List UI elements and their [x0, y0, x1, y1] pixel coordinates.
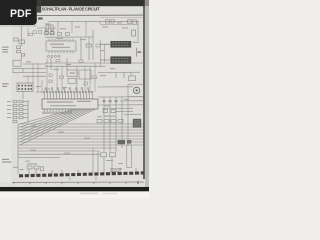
- bus line 8: [18, 144, 144, 146]
- capacitor C103: [45, 32, 49, 35]
- lower right dark chip A: [118, 140, 125, 144]
- module label: [70, 72, 76, 73]
- wire v x67: [66, 58, 68, 70]
- wire fan diagonal 7: [20, 109, 92, 142]
- IC102 label row2: [50, 105, 76, 106]
- resistor R106: [86, 44, 91, 47]
- wire v x47: [46, 58, 48, 92]
- node tick T2: [71, 22, 73, 25]
- mains label 3: [2, 51, 8, 52]
- bottom ruler line: [12, 181, 144, 183]
- wire right drop: [137, 21, 139, 41]
- ruler tick 4b: [93, 182, 95, 184]
- bottom footer smudge 2: [103, 193, 117, 194]
- capacitor C104: [51, 32, 55, 35]
- value label 9: [100, 50, 105, 51]
- bus line 9: [18, 147, 116, 149]
- IC102 upper pin ticks row2: [46, 89, 88, 92]
- wire v x33: [32, 63, 34, 83]
- IC module U201 text speckle: [112, 43, 129, 46]
- pin circle row: [48, 55, 61, 57]
- label 24: [138, 51, 142, 53]
- bus left vertical: [17, 124, 19, 174]
- scan corner patch right of badge: [37, 0, 41, 13]
- IC101 pin ticks top: [49, 39, 73, 41]
- transformer T101: [46, 25, 53, 34]
- scan top dark band: [0, 0, 144, 6]
- ruler tick 4: [77, 182, 79, 184]
- IC102 top pin circles: [43, 91, 93, 93]
- small box right y76: [129, 76, 136, 81]
- wire left vertical: [21, 26, 23, 46]
- value label 5: [117, 22, 122, 23]
- value label 34: [118, 163, 123, 164]
- lower right wire v x98: [97, 151, 99, 172]
- wire h right y111: [120, 110, 133, 112]
- bus line 12: [18, 156, 60, 158]
- wire drop x72: [71, 24, 73, 33]
- bus line 5: [18, 135, 144, 137]
- wire stub under dash 2: [95, 176, 97, 180]
- wire v x62: [61, 66, 63, 92]
- wire h y76: [23, 75, 46, 77]
- wire stub above dash 3: [77, 170, 79, 174]
- net label SPE 2: [2, 161, 12, 162]
- ruler tick 2: [29, 182, 31, 184]
- badge under-shadow: [0, 25, 37, 27]
- bus line 7: [18, 141, 144, 143]
- scan mottle overlay: [0, 6, 149, 186]
- lower right label 2: [110, 171, 119, 172]
- wire v x90: [89, 66, 91, 92]
- right resistor RH: [111, 119, 116, 122]
- bus line 6: [18, 138, 144, 140]
- diode D101: [133, 20, 137, 24]
- wire v x23: [22, 91, 24, 99]
- value label 22: [7, 113, 11, 114]
- right grid v x116: [115, 97, 117, 152]
- resistor ladder row 3: [13, 108, 17, 110]
- ruler tick 6: [137, 181, 139, 184]
- bus line 1: [18, 123, 144, 125]
- wire v left of U201 b: [104, 44, 106, 63]
- value label 25: [58, 132, 64, 133]
- wire h right y114: [124, 113, 141, 115]
- resistor ladder row 6: [13, 120, 17, 122]
- right margin strip: [145, 6, 149, 187]
- dark module hybrid: [133, 119, 141, 128]
- value label 32: [124, 99, 129, 100]
- right resistor RA: [103, 100, 106, 102]
- wire fan diagonal 6: [20, 109, 89, 139]
- value label 20: [7, 105, 11, 106]
- bus line 10: [18, 150, 100, 152]
- ruler tick 3b: [61, 182, 63, 184]
- resistor R101: [106, 20, 110, 23]
- bus line 2: [18, 126, 144, 128]
- IC102 label: [47, 101, 73, 102]
- resistor R105: [66, 33, 70, 36]
- right grid v x128: [127, 97, 129, 145]
- IC101 regulator: [46, 41, 76, 51]
- lower wire v x104 low: [103, 157, 105, 175]
- wire h y92: [36, 91, 42, 93]
- right resistor RC: [115, 100, 118, 102]
- value label 33: [106, 160, 113, 161]
- capacitor C113: [96, 44, 99, 47]
- value label 4: [102, 26, 108, 27]
- resistor R111: [29, 33, 33, 35]
- wire v x89: [88, 37, 90, 60]
- wire h right y105: [98, 104, 143, 106]
- resistor R114: [60, 76, 64, 78]
- wire U201 left stub: [100, 44, 110, 60]
- IC102 part number: [77, 101, 91, 102]
- resistor ladder row 2b: [19, 104, 23, 106]
- wire v x77: [76, 66, 78, 92]
- value label 8: [80, 39, 86, 40]
- node tick T3: [85, 21, 87, 24]
- value label 29: [97, 116, 102, 117]
- bus line 4: [18, 132, 144, 134]
- value label 21: [7, 109, 11, 110]
- value label 26: [84, 138, 90, 139]
- box module M2: [79, 70, 91, 79]
- wire stub under dash 1: [69, 177, 71, 181]
- wire top bus: [48, 20, 139, 22]
- IC102 bottom pin ticks: [44, 109, 71, 111]
- value label 14: [100, 75, 106, 76]
- wire long h y63: [45, 62, 143, 64]
- resistor R103: [17, 50, 21, 53]
- value label 31: [116, 111, 121, 112]
- wire U201 right link: [136, 48, 138, 57]
- resistor R102b: [17, 46, 21, 49]
- right resistor RJ: [118, 119, 123, 122]
- bus line 3: [18, 129, 144, 131]
- wire h y66: [45, 65, 105, 67]
- wire v x85: [84, 66, 86, 92]
- resistor ladder row 3b: [19, 108, 23, 110]
- lower cluster label b: [20, 169, 24, 170]
- lower right module frame: [127, 145, 132, 168]
- wire v x42 low: [41, 80, 43, 93]
- capacitor C101: [128, 20, 132, 23]
- wire fan diagonal 2: [20, 109, 77, 127]
- electrolytic C106: [51, 29, 53, 31]
- connector P101: [17, 83, 33, 91]
- value label 11: [26, 61, 31, 62]
- value label 27: [30, 150, 36, 151]
- left margin strip: [0, 25, 12, 182]
- box module M3: [68, 78, 76, 83]
- value label 3: [75, 26, 80, 27]
- lower cluster label a: [13, 167, 18, 168]
- small comp above U201: [132, 30, 136, 36]
- mains label 2: [2, 49, 8, 50]
- value label 35: [25, 161, 30, 162]
- resistor ladder row 4: [13, 112, 17, 114]
- resistor R115: [92, 76, 96, 79]
- lower wire v2: [35, 169, 37, 175]
- ruler tick 5: [109, 182, 111, 184]
- IC101 label row2: [52, 47, 70, 48]
- right resistor RG: [104, 119, 109, 122]
- wire stub above dash 1: [51, 170, 53, 175]
- resistor R102: [111, 20, 114, 23]
- connector jack J101 pin: [136, 89, 138, 91]
- svg-text:PDF: PDF: [10, 8, 32, 20]
- dark module texture: [134, 121, 140, 125]
- value label 24: [30, 126, 36, 127]
- lower cluster R202: [34, 166, 39, 169]
- title rule: [37, 14, 144, 17]
- value label 2: [60, 28, 66, 29]
- resistor R112: [79, 60, 83, 62]
- net label SPE: [2, 159, 9, 160]
- wire h y72: [23, 71, 46, 73]
- lower cluster R201: [27, 166, 32, 169]
- value label 12: [53, 69, 59, 70]
- bus line 11: [18, 153, 100, 155]
- wire v x28 mid: [27, 76, 29, 83]
- wire stub above dash 5: [135, 168, 137, 173]
- resistor ladder row 4b: [19, 112, 23, 114]
- wire second top bus: [100, 23, 138, 25]
- fuse F101: [14, 38, 19, 41]
- voltage label: [2, 83, 9, 84]
- lower wire v x112 low: [111, 157, 113, 174]
- subtitle mark: [38, 17, 43, 19]
- ruler tick 5b: [125, 182, 127, 184]
- scan grain overlay: [0, 6, 149, 186]
- wire down left: [21, 56, 23, 60]
- wire v x51: [50, 58, 52, 70]
- wire h right y101: [120, 100, 143, 102]
- right resistor RF: [97, 119, 102, 122]
- capacitor C102: [22, 53, 25, 56]
- electrolytic C105: [45, 29, 47, 31]
- value label 16: [36, 86, 41, 87]
- faint sub rule: [100, 17, 144, 19]
- IC102 top pin ticks: [44, 93, 92, 99]
- mains label: [2, 47, 9, 48]
- relay RY101: [19, 40, 25, 44]
- wire h right y108: [102, 107, 133, 109]
- connector P101 pins row2: [18, 88, 32, 90]
- wire stub above dash 2: [61, 170, 63, 174]
- wire h y68: [23, 67, 46, 69]
- wire stub above dash 4: [119, 168, 121, 173]
- value label 15: [110, 68, 115, 69]
- value label 23: [7, 117, 11, 118]
- ladder stub 1: [23, 101, 28, 103]
- right resistor RB: [109, 100, 112, 102]
- wire v left of U201: [100, 40, 102, 66]
- lower right cluster R302: [110, 153, 116, 157]
- cap tick x131: [130, 72, 132, 76]
- wire drop x58: [57, 24, 59, 32]
- right resistor RD: [103, 110, 108, 113]
- lower wire v1: [28, 169, 30, 176]
- capacitor C112: [38, 31, 41, 34]
- PDF badge: [0, 0, 37, 25]
- value label 19: [7, 101, 11, 102]
- cap tick x116: [115, 72, 117, 78]
- IC101 label: [50, 44, 64, 45]
- bottom footer smudge: [80, 193, 98, 195]
- IC102 bottom pin circles: [43, 112, 72, 114]
- capacitor C114: [49, 74, 52, 77]
- transformer core line 2: [50, 25, 52, 34]
- resistor ladder row 5: [13, 116, 17, 118]
- resistor R104: [58, 33, 62, 36]
- wire v x81: [80, 37, 82, 60]
- IC102 microcontroller: [42, 99, 98, 109]
- IC module U202 text speckle: [112, 58, 129, 61]
- right labels row: [104, 116, 116, 117]
- lower right dark chip B: [127, 140, 131, 144]
- bottom margin: [0, 191, 149, 198]
- ladder stub 4: [23, 113, 28, 115]
- value label 30: [104, 105, 110, 106]
- lower right label: [110, 168, 122, 169]
- diode D112: [84, 82, 87, 85]
- wire fan diagonal 3: [20, 109, 80, 130]
- ladder stub 2: [23, 105, 28, 107]
- right page border: [143, 0, 145, 179]
- wire mid h: [45, 36, 93, 38]
- voltage label 2: [2, 86, 7, 87]
- wire h y72 right: [98, 71, 140, 73]
- lower cluster labels: [27, 163, 37, 164]
- right grid v x104: [103, 97, 105, 152]
- wire fan diagonal 5: [20, 109, 86, 136]
- transformer core line: [47, 25, 49, 34]
- IC module U201: [110, 41, 131, 48]
- connector P101 pins row1: [18, 85, 32, 87]
- wire fan diagonal 8: [20, 109, 95, 145]
- cap tick x124: [123, 72, 125, 78]
- ladder stub 5: [23, 117, 28, 119]
- relay K1 coil: [13, 68, 23, 72]
- ruler tick 1: [13, 182, 15, 184]
- wire badge stub: [37, 27, 56, 29]
- value label 28: [64, 153, 70, 154]
- box module M1: [67, 70, 77, 76]
- value label 7: [56, 38, 63, 39]
- capacitor C115: [49, 80, 52, 83]
- value label 1: [45, 23, 50, 24]
- IC102 upper pin circles row2: [45, 88, 89, 90]
- wire h y87: [98, 86, 133, 88]
- wire v x38: [37, 63, 39, 92]
- value label 10: [133, 42, 139, 43]
- value label 17: [44, 89, 50, 90]
- lower right wire v x93: [92, 148, 94, 172]
- right grid v x110: [109, 97, 111, 152]
- page background: [0, 0, 149, 198]
- IC module U202: [110, 56, 131, 63]
- wire stub y31: [27, 28, 29, 36]
- node tick T1: [57, 22, 59, 25]
- resistor R113: [56, 59, 60, 61]
- terminal strip X100: [19, 173, 144, 176]
- value label 6: [122, 27, 128, 28]
- right resistor RE: [111, 110, 116, 113]
- lower right cluster R301: [101, 153, 107, 157]
- scan top band right end: [144, 0, 149, 6]
- node tick T4: [99, 21, 101, 24]
- bottom black bar: [0, 187, 149, 192]
- resistor ladder row 5b: [19, 116, 23, 118]
- value label 18: [62, 87, 67, 88]
- resistor ladder row 1b: [19, 100, 23, 102]
- wire fan diagonal 1: [20, 109, 74, 124]
- connector jack J101: [133, 87, 139, 93]
- wire v x93: [92, 30, 94, 60]
- wire fan diagonal 4: [20, 109, 83, 133]
- wire v x95: [94, 63, 96, 92]
- lower cluster C201: [41, 167, 44, 171]
- wire h right y97: [98, 96, 143, 98]
- right grid v x122: [121, 97, 123, 148]
- ladder stub 3: [23, 109, 28, 111]
- capacitor C111: [33, 31, 36, 34]
- IC101 pin ticks bottom: [49, 51, 73, 53]
- wire h y64: [23, 63, 46, 65]
- relay K1: [13, 60, 21, 66]
- ladder bus vertical: [27, 100, 29, 123]
- wire drop x86: [85, 24, 87, 37]
- resistor ladder row 2: [13, 104, 17, 106]
- value label 13: [66, 64, 71, 65]
- jack frame: [128, 84, 143, 96]
- resistor ladder row 1: [13, 100, 17, 102]
- wire v x57: [56, 66, 58, 92]
- ruler tick 3: [45, 182, 47, 184]
